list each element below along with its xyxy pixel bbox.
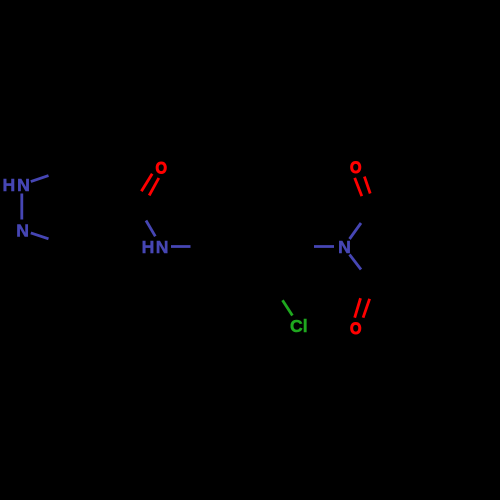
bond amideN-C1 half: [171, 245, 191, 248]
svg-text:N: N: [17, 175, 30, 195]
bond N1-C5 half: [31, 176, 49, 182]
svg-text:N: N: [16, 221, 29, 241]
svg-text:H: H: [142, 237, 155, 257]
bond amideN-C7 half: [146, 221, 155, 237]
bond imideN-topC half: [350, 223, 362, 239]
bond N1-N2: [20, 194, 23, 220]
bond imideN-botC half: [350, 255, 362, 270]
svg-text:O: O: [350, 320, 361, 338]
svg-text:Cl: Cl: [290, 316, 308, 336]
svg-text:N: N: [156, 237, 169, 257]
double bond topC=O: [355, 178, 362, 196]
bond C5b-Cl half: [283, 300, 293, 315]
double bond botC=O: [355, 298, 361, 318]
double bond C7=O: [141, 174, 152, 191]
bond N2-C3 half: [31, 233, 49, 239]
svg-text:H: H: [3, 175, 16, 195]
svg-text:O: O: [156, 160, 167, 178]
bond imideN-C4b half: [314, 245, 334, 248]
svg-text:O: O: [350, 160, 361, 178]
svg-text:N: N: [338, 237, 351, 257]
